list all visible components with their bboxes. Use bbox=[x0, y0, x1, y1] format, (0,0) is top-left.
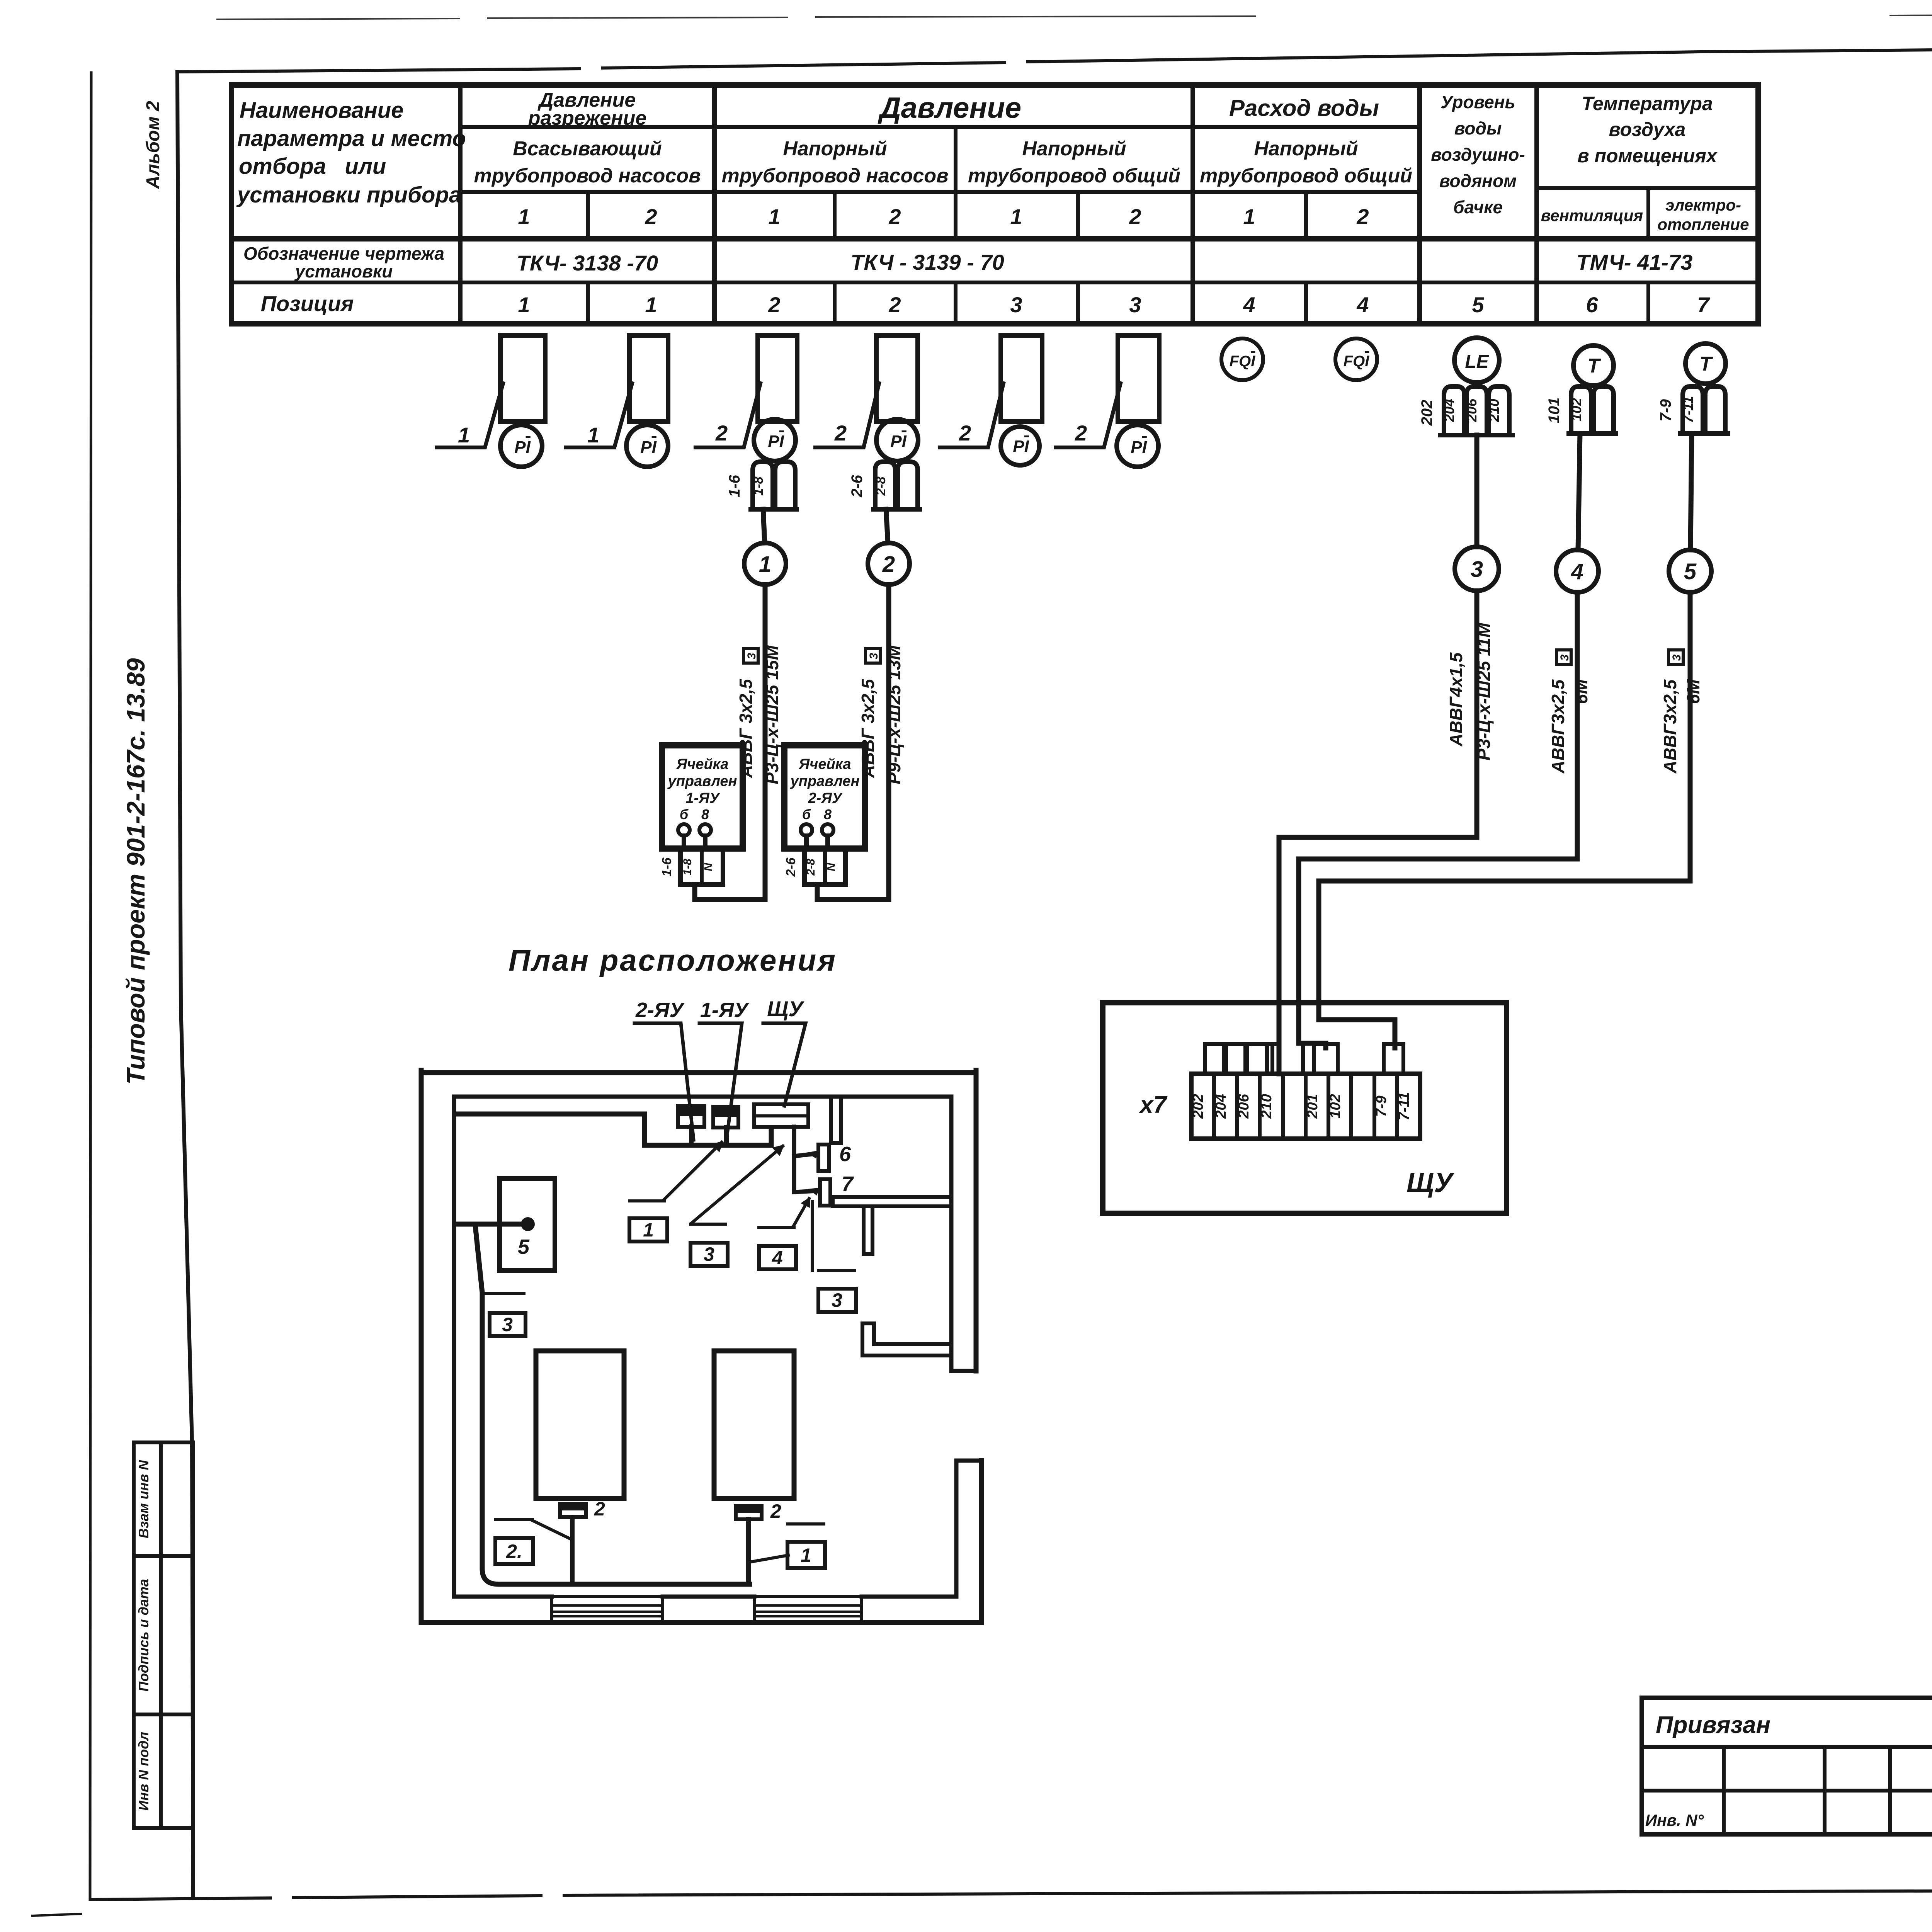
svg-text:1-6: 1-6 bbox=[726, 474, 743, 497]
svg-text:2: 2 bbox=[715, 421, 728, 445]
svg-text:1-ЯУ: 1-ЯУ bbox=[700, 998, 749, 1022]
svg-text:210: 210 bbox=[1259, 1094, 1275, 1119]
svg-text:2: 2 bbox=[888, 293, 901, 317]
svg-text:трубопровод общий: трубопровод общий bbox=[968, 165, 1180, 187]
hose marker 3 wire4 bbox=[1556, 650, 1571, 665]
svg-text:трубопровод насосов: трубопровод насосов bbox=[474, 165, 701, 187]
svg-text:3: 3 bbox=[1558, 654, 1571, 661]
wire circle1 to cell 1-ЯУ bbox=[695, 585, 765, 900]
svg-text:ТКЧ- 3138 -70: ТКЧ- 3138 -70 bbox=[517, 251, 658, 275]
svg-text:FQI: FQI bbox=[1344, 353, 1370, 370]
svg-text:PI: PI bbox=[1013, 437, 1029, 456]
instrument T 2 bbox=[1685, 344, 1726, 384]
outer left sheet line bbox=[90, 73, 91, 1900]
svg-text:Альбом 2: Альбом 2 bbox=[143, 101, 163, 189]
svg-text:АВВГ3х2,5: АВВГ3х2,5 bbox=[1660, 679, 1680, 774]
strip stub 201-102 bbox=[1314, 1044, 1338, 1074]
svg-text:1: 1 bbox=[518, 293, 530, 317]
svg-text:1-ЯУ: 1-ЯУ bbox=[685, 790, 720, 806]
svg-text:Р3-Ц-х-Ш25 11М: Р3-Ц-х-Ш25 11М bbox=[1474, 622, 1494, 760]
wire from PI4 block to circle 2 bbox=[886, 509, 888, 543]
svg-text:б: б bbox=[802, 806, 811, 822]
shelf double line right bbox=[833, 1197, 951, 1206]
node circle 3 bbox=[1455, 547, 1499, 591]
cabinet 1-ЯУ on plan bbox=[713, 1107, 738, 1128]
svg-text:Р9-Ц-х-Ш25 13М: Р9-Ц-х-Ш25 13М bbox=[884, 645, 904, 784]
terminal block under T1 bbox=[1569, 386, 1616, 434]
svg-text:Ячейка: Ячейка bbox=[798, 756, 851, 772]
svg-text:вентиляция: вентиляция bbox=[1541, 206, 1643, 224]
svg-text:2: 2 bbox=[770, 1500, 781, 1522]
svg-text:3: 3 bbox=[1471, 557, 1483, 582]
svg-text:3: 3 bbox=[867, 653, 880, 659]
parameters table frame bbox=[231, 85, 1758, 324]
parameters table vertical rules bbox=[460, 85, 1537, 324]
svg-text:PI: PI bbox=[1131, 438, 1147, 457]
svg-text:2: 2 bbox=[1129, 204, 1141, 229]
svg-text:АВВГ3х2,5: АВВГ3х2,5 bbox=[1548, 679, 1568, 774]
svg-text:АВВГ4х1,5: АВВГ4х1,5 bbox=[1446, 652, 1466, 747]
svg-text:4: 4 bbox=[1571, 559, 1583, 584]
svg-text:5: 5 bbox=[518, 1235, 530, 1259]
svg-text:5: 5 bbox=[1472, 293, 1484, 317]
svg-text:Всасывающий: Всасывающий bbox=[513, 138, 662, 160]
svg-text:отбора или: отбора или bbox=[239, 154, 386, 179]
pump 1 bbox=[536, 1351, 624, 1498]
svg-text:8: 8 bbox=[824, 806, 832, 822]
svg-text:LE: LE bbox=[1465, 352, 1489, 372]
drop from ЩУ to sensors 6 7 bbox=[794, 1127, 818, 1192]
wire circle4 to ЩУ bbox=[1299, 592, 1577, 1048]
hose marker 3 wire2 bbox=[866, 648, 880, 663]
svg-text:5: 5 bbox=[1684, 559, 1697, 584]
svg-text:Напорный: Напорный bbox=[783, 138, 887, 160]
svg-text:Р3-Ц-х-Ш25 15М: Р3-Ц-х-Ш25 15М bbox=[762, 645, 782, 784]
cable down left side bbox=[475, 1226, 750, 1584]
instrument PI 2 bbox=[626, 425, 668, 467]
label box 1 with leader bbox=[629, 1218, 667, 1242]
svg-text:Давление: Давление bbox=[878, 92, 1021, 124]
terminal block under T2 bbox=[1680, 386, 1728, 434]
svg-text:2: 2 bbox=[882, 552, 895, 577]
svg-text:Обозначение чертежа: Обозначение чертежа bbox=[243, 243, 444, 264]
frame bottom border bbox=[91, 1889, 1932, 1900]
svg-text:PI: PI bbox=[768, 432, 784, 451]
svg-text:101: 101 bbox=[1546, 398, 1563, 423]
strip stub 7-9 bbox=[1384, 1044, 1403, 1074]
svg-text:102: 102 bbox=[1568, 398, 1584, 421]
svg-text:2: 2 bbox=[888, 204, 901, 229]
shelf tick bbox=[864, 1206, 872, 1254]
sensor 6 on plan bbox=[818, 1145, 829, 1171]
control cell box 1-ЯУ bbox=[662, 745, 743, 849]
label box 3 middle with leader bbox=[690, 1243, 728, 1266]
svg-text:N: N bbox=[702, 862, 715, 871]
svg-text:отопление: отопление bbox=[1657, 215, 1749, 233]
svg-text:Типовой проект 901-2-167с. 1: Типовой проект 901-2-167с. 13.89 bbox=[121, 658, 150, 1085]
title block: binding stamp box bbox=[1642, 1698, 1932, 1834]
pump 2 bbox=[714, 1351, 794, 1498]
terminal block of 2-ЯУ bbox=[804, 849, 845, 884]
wire circle5 to ЩУ bbox=[1319, 592, 1690, 1048]
offtake device rect 1 bbox=[500, 335, 545, 422]
offtake device rect 2 bbox=[629, 335, 668, 422]
wire circle3 to ЩУ bbox=[1279, 591, 1477, 1074]
offtake device rect 6 bbox=[1118, 335, 1159, 422]
svg-text:в помещениях: в помещениях bbox=[1577, 145, 1718, 167]
svg-text:1: 1 bbox=[1243, 204, 1255, 229]
svg-text:2-6: 2-6 bbox=[849, 474, 866, 498]
svg-text:х7: х7 bbox=[1139, 1092, 1167, 1118]
svg-text:204: 204 bbox=[1213, 1094, 1229, 1119]
svg-text:1: 1 bbox=[587, 423, 599, 447]
frame top border bbox=[177, 43, 1932, 72]
svg-text:2-ЯУ: 2-ЯУ bbox=[635, 998, 685, 1022]
svg-text:1: 1 bbox=[645, 293, 657, 317]
svg-text:Напорный: Напорный bbox=[1022, 138, 1126, 160]
svg-text:7-11: 7-11 bbox=[1396, 1092, 1412, 1120]
svg-text:6М: 6М bbox=[1571, 679, 1591, 704]
svg-text:202: 202 bbox=[1418, 400, 1435, 426]
svg-text:6М: 6М bbox=[1683, 679, 1703, 704]
pump sensor 2 right bbox=[736, 1506, 762, 1519]
terminal block under PI4 bbox=[873, 462, 920, 509]
plan outer wall bbox=[421, 1070, 981, 1622]
svg-text:2: 2 bbox=[1356, 204, 1369, 229]
svg-text:установки: установки bbox=[294, 261, 393, 281]
wire from PI3 block to circle 1 bbox=[763, 509, 765, 543]
svg-text:4: 4 bbox=[1356, 293, 1369, 317]
svg-text:3: 3 bbox=[1129, 293, 1141, 317]
label box 4 with leader bbox=[759, 1246, 796, 1269]
pump sensor 2 left bbox=[560, 1504, 586, 1517]
svg-text:1-8: 1-8 bbox=[681, 859, 694, 876]
wire LE block to circle 3 bbox=[1475, 435, 1480, 547]
svg-text:2-8: 2-8 bbox=[804, 859, 817, 876]
wire circle2 to cell 2-ЯУ bbox=[817, 585, 889, 900]
svg-text:воздуха: воздуха bbox=[1609, 119, 1686, 140]
cabinet ЩУ box bbox=[1103, 1003, 1507, 1213]
svg-text:1: 1 bbox=[801, 1544, 811, 1566]
cabinet 2-ЯУ on plan bbox=[678, 1106, 704, 1127]
node circle 2 bbox=[868, 543, 910, 585]
svg-text:201: 201 bbox=[1304, 1094, 1321, 1119]
svg-text:3: 3 bbox=[745, 653, 758, 659]
svg-text:206: 206 bbox=[1236, 1094, 1252, 1119]
svg-text:3: 3 bbox=[1670, 654, 1683, 661]
plan inner wall lines bbox=[454, 1097, 981, 1597]
node circle 1 bbox=[744, 543, 786, 585]
control cell box 2-ЯУ bbox=[784, 745, 865, 849]
svg-text:б: б bbox=[680, 806, 689, 822]
cabinet stubs to tray bbox=[691, 1127, 726, 1145]
svg-text:Позиция: Позиция bbox=[261, 291, 354, 316]
svg-text:202: 202 bbox=[1190, 1094, 1206, 1119]
svg-text:ТКЧ - 3139 - 70: ТКЧ - 3139 - 70 bbox=[850, 250, 1004, 274]
svg-text:7-9: 7-9 bbox=[1657, 399, 1674, 422]
svg-text:Инв N подл: Инв N подл bbox=[136, 1732, 151, 1811]
svg-text:7: 7 bbox=[842, 1172, 854, 1196]
svg-text:ТМЧ- 41-73: ТМЧ- 41-73 bbox=[1577, 250, 1693, 274]
svg-text:3: 3 bbox=[1010, 293, 1022, 317]
sensor 7 on plan bbox=[820, 1179, 830, 1206]
svg-text:FQI: FQI bbox=[1230, 353, 1256, 370]
strip stubs group left bbox=[1205, 1044, 1303, 1074]
svg-text:2: 2 bbox=[594, 1498, 605, 1520]
svg-text:План расположения: План расположения bbox=[509, 943, 837, 977]
svg-text:Подпись и дата: Подпись и дата bbox=[136, 1579, 151, 1692]
svg-text:ЩУ: ЩУ bbox=[767, 997, 804, 1021]
svg-text:4: 4 bbox=[772, 1247, 783, 1269]
svg-text:воздушно-: воздушно- bbox=[1431, 145, 1525, 165]
svg-text:7-9: 7-9 bbox=[1373, 1096, 1389, 1117]
svg-text:PI: PI bbox=[514, 438, 531, 457]
svg-text:2-8: 2-8 bbox=[874, 476, 888, 496]
svg-text:Инв. N°: Инв. N° bbox=[1645, 1811, 1704, 1829]
instrument PI 4 bbox=[876, 419, 918, 461]
svg-text:1-8: 1-8 bbox=[751, 476, 766, 495]
svg-text:2-ЯУ: 2-ЯУ bbox=[808, 790, 843, 806]
svg-text:Ячейка: Ячейка bbox=[676, 756, 728, 772]
terminal block under PI3 bbox=[751, 462, 797, 509]
label box 3 right bbox=[818, 1289, 856, 1312]
instrument PI 1 bbox=[500, 425, 542, 467]
label box 2. with leader bbox=[495, 1538, 533, 1564]
parameters table horizontal rules bbox=[231, 127, 1758, 282]
svg-text:102: 102 bbox=[1327, 1094, 1344, 1118]
svg-text:Расход воды: Расход воды bbox=[1229, 95, 1379, 121]
svg-text:7-11: 7-11 bbox=[1680, 396, 1696, 423]
hose marker 3 wire5 bbox=[1668, 650, 1683, 665]
partition hook right bbox=[862, 1323, 951, 1355]
plan door block right bbox=[754, 1597, 862, 1622]
svg-text:параметра и место: параметра и место bbox=[237, 126, 466, 151]
svg-text:установки прибора: установки прибора bbox=[236, 182, 461, 207]
instrument FQI 2 bbox=[1335, 338, 1377, 380]
wire T1 block to circle 4 bbox=[1578, 434, 1580, 550]
svg-text:1: 1 bbox=[458, 423, 470, 447]
svg-text:трубопровод общий: трубопровод общий bbox=[1200, 165, 1412, 187]
svg-text:4: 4 bbox=[1243, 293, 1255, 317]
svg-text:Температура: Температура bbox=[1582, 93, 1713, 114]
svg-text:8: 8 bbox=[701, 806, 709, 822]
sensor dot 5 bbox=[521, 1217, 535, 1231]
terminal block of 1-ЯУ bbox=[680, 849, 723, 884]
svg-text:3: 3 bbox=[502, 1314, 513, 1335]
svg-text:управлен: управлен bbox=[667, 773, 737, 789]
svg-text:6: 6 bbox=[1586, 293, 1598, 317]
hose marker 3 wire1 bbox=[743, 648, 758, 663]
instrument PI 5 bbox=[1001, 427, 1039, 465]
partition stub top-right bbox=[831, 1097, 841, 1143]
svg-text:1: 1 bbox=[518, 204, 530, 229]
svg-text:N: N bbox=[825, 862, 838, 871]
svg-text:ЩУ: ЩУ bbox=[1406, 1167, 1455, 1198]
svg-text:1: 1 bbox=[768, 204, 780, 229]
svg-text:водяном: водяном bbox=[1439, 171, 1517, 191]
instrument PI 3 bbox=[754, 419, 796, 461]
instrument T 1 bbox=[1573, 345, 1614, 386]
svg-text:T: T bbox=[1587, 355, 1601, 377]
svg-text:PI: PI bbox=[640, 438, 656, 457]
bottom-left sheet dash bbox=[32, 1914, 81, 1916]
svg-text:2: 2 bbox=[1075, 421, 1087, 445]
svg-text:электро-: электро- bbox=[1665, 196, 1741, 214]
svg-text:управлен: управлен bbox=[790, 773, 860, 789]
svg-text:разрежение: разрежение bbox=[527, 107, 647, 129]
svg-text:1: 1 bbox=[643, 1219, 654, 1241]
wire T2 block to circle 5 bbox=[1690, 434, 1692, 550]
offtake device rect 4 bbox=[876, 335, 918, 422]
svg-text:Наименование: Наименование bbox=[240, 98, 403, 123]
svg-text:Привязан: Привязан bbox=[1656, 1712, 1770, 1738]
svg-text:воды: воды bbox=[1454, 118, 1502, 138]
svg-text:бачке: бачке bbox=[1453, 197, 1503, 217]
cabinet ЩУ on plan bbox=[754, 1104, 808, 1127]
cable to dot 5 bbox=[456, 1222, 522, 1227]
svg-text:1: 1 bbox=[759, 552, 771, 577]
plan door block left bbox=[552, 1597, 663, 1622]
label box 3 left bbox=[490, 1313, 526, 1336]
svg-text:206: 206 bbox=[1464, 398, 1480, 422]
node circle 5 bbox=[1669, 550, 1711, 592]
terminal strip х7 bbox=[1191, 1074, 1420, 1139]
svg-text:210: 210 bbox=[1486, 399, 1502, 422]
equipment 5 box bbox=[500, 1179, 555, 1270]
svg-text:1: 1 bbox=[1010, 204, 1022, 229]
svg-text:1-6: 1-6 bbox=[660, 857, 674, 876]
frame left border bbox=[177, 72, 193, 1896]
svg-text:T: T bbox=[1699, 353, 1713, 375]
svg-text:204: 204 bbox=[1441, 399, 1457, 422]
svg-text:Взам инв N: Взам инв N bbox=[136, 1460, 151, 1539]
svg-text:2-6: 2-6 bbox=[784, 857, 798, 877]
offtake device rect 5 bbox=[1001, 335, 1042, 422]
instrument PI 6 bbox=[1117, 425, 1158, 467]
svg-text:2: 2 bbox=[645, 204, 657, 229]
terminal block under LE bbox=[1440, 386, 1512, 435]
svg-text:PI: PI bbox=[890, 432, 906, 451]
instrument FQI 1 bbox=[1221, 338, 1263, 380]
svg-text:трубопровод насосов: трубопровод насосов bbox=[721, 165, 948, 187]
svg-text:Напорный: Напорный bbox=[1254, 138, 1358, 160]
label box 1 bottom with leader bbox=[787, 1542, 825, 1568]
offtake device rect 3 bbox=[758, 335, 797, 422]
svg-text:2: 2 bbox=[768, 293, 780, 317]
svg-text:3: 3 bbox=[704, 1243, 714, 1265]
node circle 4 bbox=[1556, 550, 1599, 592]
cable tray from wall to ЩУ bbox=[456, 1114, 771, 1145]
svg-text:2.: 2. bbox=[506, 1541, 522, 1562]
instrument LE bbox=[1454, 338, 1499, 383]
svg-text:2: 2 bbox=[959, 421, 971, 445]
sheet edge dashed top line bbox=[216, 16, 1256, 19]
svg-text:6: 6 bbox=[839, 1143, 851, 1166]
svg-text:3: 3 bbox=[832, 1289, 842, 1311]
left bottom stamp box bbox=[134, 1442, 193, 1828]
svg-text:2: 2 bbox=[834, 421, 847, 445]
svg-text:Уровень: Уровень bbox=[1440, 92, 1515, 112]
svg-text:7: 7 bbox=[1697, 293, 1710, 317]
